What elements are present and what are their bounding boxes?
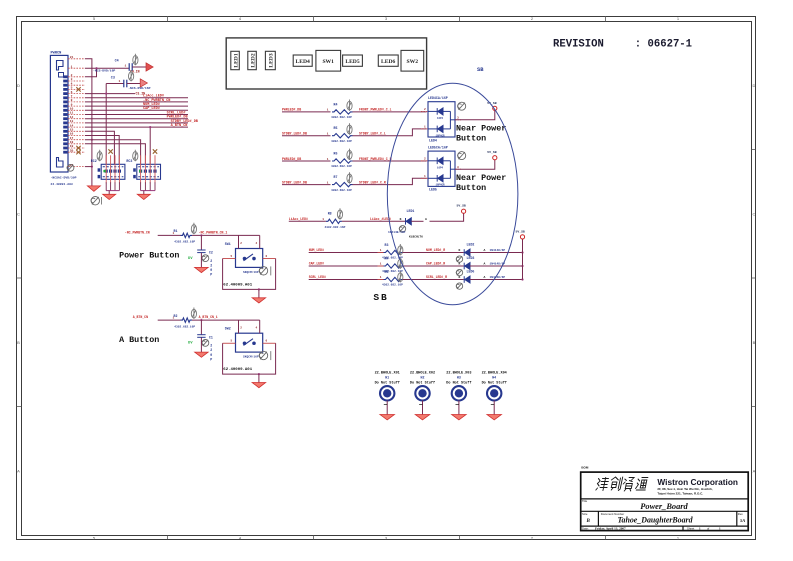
wire pin21 to ground rail — [85, 59, 92, 186]
svg-text:1: 1 — [424, 126, 426, 129]
svg-text:C2: C2 — [209, 251, 213, 255]
svg-text:STDBY_LED#_C_L: STDBY_LED#_C_L — [359, 132, 386, 136]
wire SW2 loop — [223, 343, 276, 374]
wire LED6 anode to rail — [470, 279, 523, 281]
wire C3 branch vertical to RC2 — [105, 84, 107, 165]
R3 non-stuff marker — [398, 244, 403, 255]
svg-text:Title: Title — [582, 499, 588, 503]
wire to capacitor C1 — [200, 320, 202, 334]
svg-text:LED3: LED3 — [467, 256, 475, 260]
svg-text:LED2: LED2 — [250, 53, 256, 68]
R6 non-stuff marker — [347, 149, 352, 160]
LED6 outline — [378, 55, 398, 66]
svg-text:LED5: LED5 — [345, 59, 360, 65]
svg-text:62.40009.A01: 62.40009.A01 — [223, 368, 252, 372]
svg-text:R3: R3 — [385, 243, 389, 247]
wire C1 to ground — [200, 338, 202, 353]
ground RC3 — [137, 194, 150, 199]
svg-text:RC3: RC3 — [126, 159, 132, 163]
svg-text:A: A — [484, 275, 486, 279]
wire H4 to ground — [493, 401, 495, 415]
resistor R5 — [384, 277, 403, 281]
svg-text:K: K — [458, 248, 460, 252]
svg-text:LED6: LED6 — [381, 59, 396, 65]
R5 non-stuff marker — [347, 123, 352, 134]
SW2 variant marker — [259, 351, 267, 359]
LED5 variant marker — [458, 152, 466, 160]
svg-text:Do Not Stuff: Do Not Stuff — [410, 381, 435, 386]
svg-text:A: A — [484, 262, 486, 266]
svg-text:H3: H3 — [457, 376, 461, 380]
svg-text:1: 1 — [125, 64, 127, 67]
wire net -NC_PWRBTN_CN — [158, 234, 181, 236]
svg-text:SKQCM/16P: SKQCM/16P — [243, 270, 259, 274]
wire net CAP_LED# — [309, 265, 384, 267]
wire LED2 anode to rail — [470, 252, 523, 254]
variant marker bottom — [91, 197, 99, 205]
svg-text:LED6: LED6 — [467, 269, 475, 273]
svg-text:4302.682.16P: 4302.682.16P — [331, 189, 352, 192]
wire net STDBY_LED#_DB — [282, 135, 331, 137]
svg-text:R5: R5 — [334, 126, 338, 130]
connector pin stubs — [68, 59, 85, 167]
capacitor C4 — [129, 63, 132, 71]
wire net STDBY_LED#_DB — [85, 122, 188, 124]
svg-text:16P4: 16P4 — [437, 117, 444, 120]
svg-text:Power_Board: Power_Board — [640, 502, 688, 511]
wires RC3 bottom to ground — [141, 182, 155, 190]
wire C2 to ground — [200, 253, 202, 268]
svg-text:C: C — [17, 212, 20, 217]
svg-text:LED5: LED5 — [429, 188, 437, 192]
connector PWRCN body — [50, 55, 68, 172]
R8 non-stuff marker — [337, 208, 342, 219]
no-connect pin 20 — [76, 150, 80, 154]
svg-text:FRONT_PWRLED#_C_R: FRONT_PWRLED#_C_R — [359, 157, 392, 161]
svg-text:5V_SB: 5V_SB — [487, 150, 496, 154]
wire net LiAcc_LED# — [289, 220, 326, 222]
ground SW2 — [252, 383, 266, 388]
mounting hole H4 — [482, 372, 507, 386]
mounting hole H3 — [446, 372, 471, 386]
svg-text:LED2: LED2 — [467, 242, 475, 246]
wire net SCRL_LED# — [85, 114, 188, 116]
wire pin2 jog up — [85, 68, 97, 77]
R4 non-stuff marker — [398, 258, 403, 269]
svg-text:2: 2 — [424, 158, 426, 161]
svg-text:SW1: SW1 — [225, 242, 231, 246]
dual LED LED4 — [428, 102, 455, 137]
wire net PWRLED#_DB — [282, 160, 331, 162]
svg-text:RC2: RC2 — [91, 159, 97, 163]
svg-text:-NCS-DVD/16P: -NCS-DVD/16P — [93, 68, 115, 72]
svg-text:1: 1 — [327, 133, 329, 136]
power arrow +5V C4 — [146, 63, 153, 71]
resistor R8 — [326, 219, 342, 223]
svg-text:K: K — [400, 217, 402, 221]
wire net CAP_LED# — [85, 109, 188, 111]
mounting hole H1 — [375, 372, 400, 386]
svg-text:CAP_LED#: CAP_LED# — [309, 262, 324, 266]
svg-text:SCRL_LED#_R: SCRL_LED#_R — [426, 275, 447, 279]
SW1 variant marker — [259, 267, 267, 275]
svg-text:R4: R4 — [385, 256, 389, 260]
wire net PWRLED#_DB — [282, 111, 331, 113]
svg-text:3: 3 — [457, 117, 459, 120]
capacitor C2 — [197, 250, 205, 253]
resistor R4 — [332, 110, 353, 114]
wire C4 to power arrow — [132, 66, 146, 68]
SW1 outline — [316, 50, 341, 71]
svg-text:A Button: A Button — [119, 335, 159, 345]
svg-text:Date:: Date: — [582, 527, 589, 531]
svg-text:PWRCN: PWRCN — [51, 52, 62, 56]
svg-text:R5: R5 — [385, 270, 389, 274]
ground H1 — [380, 415, 395, 420]
svg-text:A: A — [425, 217, 427, 221]
wire to switch — [192, 319, 260, 321]
svg-text:K: K — [458, 275, 460, 279]
svg-text:REVISION: REVISION — [553, 39, 604, 51]
svg-text:D: D — [17, 83, 20, 88]
wire C3_IN — [85, 93, 135, 95]
SW1 pin wires top — [238, 235, 240, 248]
svg-text:5V_SB: 5V_SB — [457, 204, 466, 208]
svg-text:R2: R2 — [174, 314, 178, 318]
svg-text:16P4: 16P4 — [437, 166, 444, 169]
svg-text:Tahoe_DaughterBoard: Tahoe_DaughterBoard — [617, 515, 693, 524]
svg-text:B: B — [753, 340, 756, 345]
wire to LED6 — [403, 279, 464, 281]
LED5 outline — [343, 55, 363, 66]
C4 non-stuff marker — [133, 54, 138, 65]
svg-text:KLBCHLT6: KLBCHLT6 — [409, 236, 423, 239]
wire LED4 pin3 to 5V_SB — [455, 110, 495, 119]
no-connect pin 5 — [76, 87, 80, 91]
wire net A_BTN_CN — [158, 319, 181, 321]
resistor R5 — [332, 134, 353, 138]
svg-text:LED1: LED1 — [407, 209, 415, 213]
ground SW1 — [252, 298, 266, 303]
svg-text:H1: H1 — [385, 376, 389, 380]
C2 variant marker — [202, 255, 209, 262]
connector variant marker — [67, 164, 74, 171]
LED2 variant marker — [456, 256, 462, 262]
wire FRONT_PWRLED#_C_L — [353, 111, 427, 113]
power 5V_SB at LED5 — [493, 156, 497, 160]
svg-text:B: B — [17, 340, 20, 345]
RC3 non-stuff marker — [133, 150, 138, 161]
svg-text:A_BTN_CN: A_BTN_CN — [133, 315, 148, 319]
wire net A_BTN_CN — [85, 126, 188, 128]
R7 non-stuff marker — [347, 172, 352, 183]
svg-text:SW1: SW1 — [322, 59, 334, 65]
svg-text:Near Power: Near Power — [456, 124, 506, 134]
switch SW2 — [236, 333, 263, 352]
wire LED1 anode to 5V_SB — [430, 213, 464, 221]
title block border — [581, 472, 749, 530]
svg-text:4302.682.16P: 4302.682.16P — [174, 241, 195, 244]
svg-text:C4: C4 — [115, 59, 119, 63]
board outline box — [226, 38, 426, 89]
svg-text:A: A — [753, 469, 756, 474]
svg-text:16P4GR: 16P4GR — [436, 184, 446, 187]
svg-text:62.40009.A01: 62.40009.A01 — [223, 283, 252, 287]
connector PWRCN pin boxes — [63, 75, 67, 153]
svg-text:LED3: LED3 — [269, 53, 275, 68]
svg-text:Sheet: Sheet — [687, 527, 695, 531]
svg-text:1: 1 — [380, 249, 382, 252]
svg-text:P: P — [210, 357, 212, 361]
svg-text:-NC_PWRBTN_CN_1: -NC_PWRBTN_CN_1 — [199, 231, 228, 235]
svg-text:Wistron Corporation: Wistron Corporation — [657, 477, 738, 487]
wire LED5 pin3 to 5V_SB — [455, 160, 495, 169]
svg-text:of: of — [707, 527, 710, 531]
svg-text:-NCS-DVD/16P: -NCS-DVD/16P — [128, 86, 150, 90]
svg-text:1N4148/6P: 1N4148/6P — [490, 248, 506, 252]
svg-text:2: 2 — [210, 344, 212, 348]
svg-text:16P4GR: 16P4GR — [436, 134, 446, 137]
power 5V_SB at LED4 — [493, 106, 497, 110]
capacitor C3 — [124, 80, 127, 88]
wire net NUM_LED# — [309, 252, 384, 254]
svg-text:LED4CA/16P: LED4CA/16P — [428, 96, 448, 100]
svg-text:Do Not Stuff: Do Not Stuff — [482, 381, 507, 386]
svg-text:LED4: LED4 — [429, 138, 437, 142]
svg-text:4302.682.16P: 4302.682.16P — [331, 165, 352, 168]
svg-text:0: 0 — [210, 353, 212, 357]
svg-text:Rev: Rev — [738, 512, 744, 516]
svg-text:STDBY_LED#_DB: STDBY_LED#_DB — [282, 180, 307, 184]
ground H3 — [452, 415, 467, 420]
svg-text:BOM: BOM — [581, 465, 589, 469]
svg-text:0: 0 — [210, 268, 212, 272]
C3 non-stuff marker — [129, 70, 134, 81]
svg-text:2: 2 — [210, 348, 212, 352]
svg-text:1: 1 — [380, 263, 382, 266]
svg-text:Friday, April 13, 2007: Friday, April 13, 2007 — [595, 527, 626, 531]
svg-text:5A: 5A — [740, 518, 745, 523]
svg-text:1: 1 — [380, 276, 382, 279]
ground GND1 — [87, 186, 100, 191]
svg-text:R7: R7 — [334, 175, 338, 179]
SW2 pin wires top — [238, 320, 240, 333]
svg-text:R4: R4 — [334, 102, 338, 106]
svg-text:D: D — [753, 83, 756, 88]
RC2 non-stuff marker — [97, 150, 102, 161]
wire pin16 to RC vertical — [85, 136, 119, 165]
wire STDBY_LED#_C_R — [353, 178, 427, 184]
svg-text:SW2: SW2 — [225, 327, 231, 331]
svg-text:LED4: LED4 — [296, 59, 311, 65]
svg-text:4302.682.16P: 4302.682.16P — [382, 284, 403, 287]
resistor R6 — [332, 159, 353, 163]
ground C2 — [195, 267, 209, 272]
svg-text:C: C — [753, 212, 756, 217]
svg-text:Power Button: Power Button — [119, 250, 179, 260]
svg-text:R8: R8 — [328, 212, 332, 216]
svg-text:1: 1 — [327, 158, 329, 161]
capacitor C1 — [197, 335, 205, 338]
svg-text:R6: R6 — [334, 151, 338, 155]
svg-text:SW2: SW2 — [407, 59, 419, 65]
no-connect RC3 pin — [153, 149, 157, 153]
wire to LED2 — [403, 252, 464, 254]
wire pin1 to C4 — [85, 67, 129, 69]
wire net LiAcc_LED# — [85, 97, 188, 99]
diode LED6 — [464, 276, 470, 283]
wire H2 to ground — [422, 401, 424, 415]
wires RC2 bottom to ground — [106, 182, 119, 190]
svg-text:1: 1 — [327, 109, 329, 112]
wire C3 to power arrow — [127, 83, 140, 85]
ground C1 — [195, 352, 209, 357]
wire net SCRL_LED# — [309, 279, 384, 281]
svg-text:NUM_LED#: NUM_LED# — [309, 248, 324, 252]
resistor R2 — [181, 318, 193, 322]
svg-text:LED1: LED1 — [233, 53, 239, 68]
wire to LED3 — [403, 265, 464, 267]
svg-text:A: A — [484, 248, 486, 252]
ground RC2 — [103, 194, 116, 199]
svg-text:LiAcc_LED#: LiAcc_LED# — [289, 217, 308, 221]
selection ellipse — [387, 83, 518, 304]
svg-text:LED5CA/16P: LED5CA/16P — [428, 146, 448, 150]
svg-text:PWRLED#_DB: PWRLED#_DB — [282, 108, 301, 112]
resistor R4 — [384, 264, 403, 268]
svg-text:Near Power: Near Power — [456, 173, 506, 183]
svg-text:STDBY_LED#_C_R: STDBY_LED#_C_R — [359, 180, 386, 184]
svg-text:FRONT_PWRLED#_C_L: FRONT_PWRLED#_C_L — [359, 108, 392, 112]
resistor R7 — [332, 182, 353, 186]
wire SW1 to ground — [258, 289, 260, 297]
power arrow +5V C3 — [140, 79, 147, 87]
svg-text:2F, 88, Sec.1, Hsin Tai Wu Rd.: 2F, 88, Sec.1, Hsin Tai Wu Rd., Hsichih, — [657, 487, 712, 491]
svg-text:R1: R1 — [174, 229, 178, 233]
svg-text:CAP_LED#_R: CAP_LED#_R — [426, 262, 445, 266]
svg-text:Button: Button — [456, 183, 486, 193]
ground H2 — [415, 415, 430, 420]
R2 non-stuff marker — [191, 308, 196, 319]
wire H1 to ground — [386, 401, 388, 415]
SW2 side stubs — [223, 342, 236, 344]
LED2 outline — [248, 51, 256, 69]
svg-text:C1: C1 — [209, 335, 213, 339]
svg-text:H2: H2 — [421, 376, 425, 380]
svg-text:NUM_LED#_R: NUM_LED#_R — [426, 248, 445, 252]
SW1 side stubs — [223, 258, 236, 260]
wire net PWRLED#_DB — [85, 118, 188, 120]
power 5V_SB at LED1 — [462, 209, 466, 213]
R1 non-stuff marker — [191, 223, 196, 234]
svg-text:-NCSAC-DVD/39P: -NCSAC-DVD/39P — [51, 175, 77, 179]
svg-text:A: A — [17, 469, 20, 474]
wire FRONT_PWRLED#_C_R — [353, 160, 427, 162]
resistor R1 — [181, 233, 193, 237]
svg-text:P: P — [210, 273, 212, 277]
svg-text:2: 2 — [210, 264, 212, 268]
power 5V_SB at rail — [520, 235, 524, 239]
svg-text:C3: C3 — [111, 76, 115, 80]
wire pin18 to RC vertical — [85, 144, 145, 165]
wire to LED1 — [342, 220, 405, 222]
svg-text:-NC_PWRBTN_CN: -NC_PWRBTN_CN — [125, 231, 150, 235]
wire to capacitor C2 — [200, 235, 202, 249]
SW2 outline — [401, 50, 424, 71]
svg-text:Size: Size — [582, 512, 588, 516]
svg-text:3: 3 — [457, 166, 459, 169]
svg-text:4302.682.16P: 4302.682.16P — [331, 140, 352, 143]
svg-text:K: K — [458, 262, 460, 266]
svg-text:SKQCM/16P: SKQCM/16P — [243, 355, 259, 359]
svg-text:H4: H4 — [492, 376, 496, 380]
svg-text:PWRLED#_DB: PWRLED#_DB — [282, 157, 301, 161]
wire pin22 to ground rail — [85, 166, 92, 168]
switch SW1 — [236, 249, 263, 268]
wire 5V_SB rail — [522, 239, 524, 280]
resistor pack RC3 — [137, 164, 161, 179]
svg-text:STDBY_LED#_DB: STDBY_LED#_DB — [282, 132, 307, 136]
mounting hole H2 — [410, 372, 435, 386]
LED3 outline — [265, 51, 275, 69]
no-connect RC2 pin — [108, 149, 112, 153]
wire H3 to ground — [458, 401, 460, 415]
diode LED2 — [464, 249, 470, 256]
svg-text:Do Not Stuff: Do Not Stuff — [375, 381, 400, 386]
svg-text:SB: SB — [373, 292, 388, 303]
LED1 variant marker — [399, 226, 405, 232]
svg-text:B: B — [586, 519, 591, 524]
connector pin numbers — [70, 56, 74, 167]
svg-text:2: 2 — [210, 259, 212, 263]
svg-text:4302.682.16P: 4302.682.16P — [174, 325, 195, 328]
wire pin17 to RC vertical — [85, 140, 141, 165]
LED1 outline — [231, 51, 240, 69]
resistor R3 — [384, 250, 403, 254]
svg-text:1: 1 — [119, 80, 121, 83]
svg-text:CAP_LED#: CAP_LED# — [143, 107, 160, 111]
no-connect pin 19 — [76, 146, 80, 150]
wire SW2 to ground — [258, 374, 260, 382]
LED4 variant marker — [458, 102, 466, 110]
company logo Chinese characters — [596, 477, 648, 491]
wire pin15 to RC vertical — [85, 131, 114, 164]
ground H4 — [487, 415, 502, 420]
svg-text:5V_SB: 5V_SB — [516, 230, 525, 234]
LED6 variant marker — [456, 283, 462, 289]
svg-text:4302.682.16P: 4302.682.16P — [331, 116, 352, 119]
LED3 variant marker — [456, 269, 462, 275]
svg-text:: 06627-1: : 06627-1 — [635, 39, 692, 51]
svg-text:Taipei Hsien 221, Taiwan, R.O.: Taipei Hsien 221, Taiwan, R.O.C. — [657, 492, 703, 496]
svg-text:1: 1 — [424, 175, 426, 178]
wire SW1 loop — [223, 259, 276, 290]
wire to switch — [192, 234, 260, 236]
diode LED3 — [464, 263, 470, 270]
svg-text:1: 1 — [327, 181, 329, 184]
svg-text:LiAcc_#LED#: LiAcc_#LED# — [370, 217, 391, 221]
svg-text:2: 2 — [424, 108, 426, 111]
svg-text:SB: SB — [477, 67, 484, 73]
wire bus to RC3 vertical — [149, 127, 151, 164]
wire net NUM_LED# — [85, 105, 188, 107]
svg-text:1: 1 — [322, 218, 324, 221]
LED4 outline — [293, 55, 312, 66]
junction pins on ground rail — [91, 130, 93, 132]
wire branch to C3 — [106, 83, 124, 85]
svg-text:A_BTN_CN: A_BTN_CN — [171, 124, 188, 128]
svg-text:SCRL_LED#: SCRL_LED# — [309, 275, 326, 279]
